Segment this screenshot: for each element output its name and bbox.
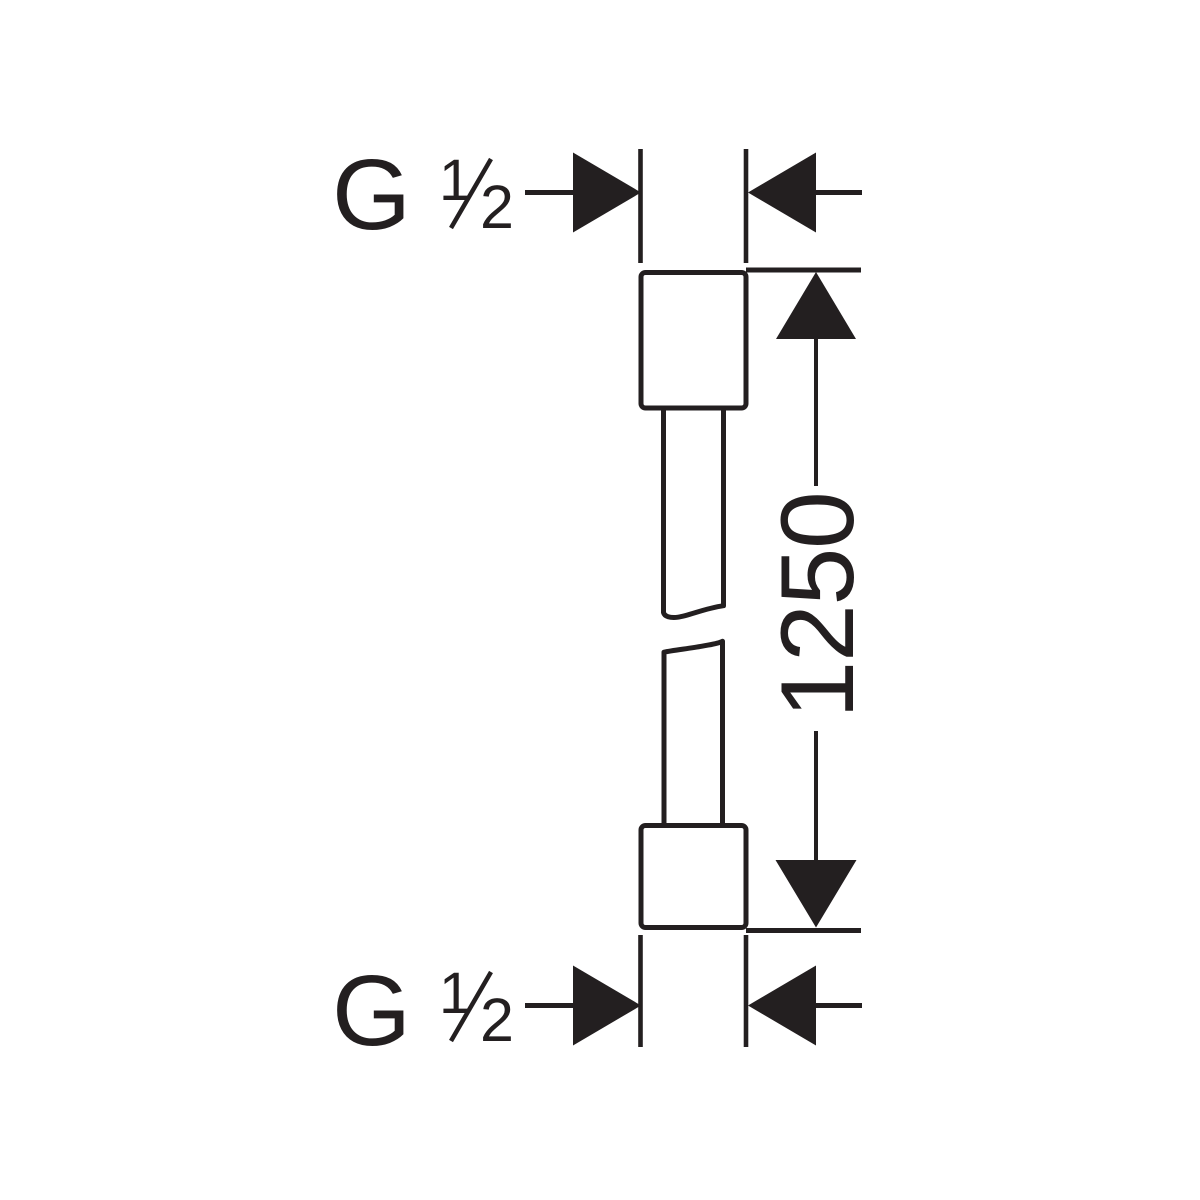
svg-text:1250: 1250 [760,492,876,718]
svg-text:2: 2 [480,173,514,241]
extension line top-right [744,149,749,263]
dimension line upper segment [814,339,818,486]
hose lower segment [664,641,723,827]
dimension line lower segment [814,731,818,860]
arrow left-pointing (top-right) [748,153,816,233]
dimension arrow down [776,860,857,928]
dimension arrow up [776,272,856,339]
svg-text:G: G [332,139,411,251]
dimension extension line top [746,268,861,273]
extension line top-left [638,149,643,263]
bottom connector block [641,826,746,928]
arrow right-pointing (top-left) [573,153,641,233]
tail line right (bottom) [815,1003,862,1008]
fraction slash (top) [451,159,491,228]
leader line left (bottom) [525,1003,574,1008]
fraction slash (bottom) [451,972,491,1041]
extension line bottom-left [638,935,643,1047]
extension line bottom-right [744,935,749,1047]
arrow left-pointing (bottom-right) [748,966,816,1046]
top connector block [641,273,746,409]
svg-text:G: G [332,955,411,1067]
dimension extension line bottom [746,928,861,933]
tail line right (top) [815,190,862,195]
svg-text:2: 2 [480,986,514,1054]
leader line left (top) [525,190,574,195]
hose upper segment [664,406,724,617]
arrow right-pointing (bottom-left) [573,966,641,1046]
